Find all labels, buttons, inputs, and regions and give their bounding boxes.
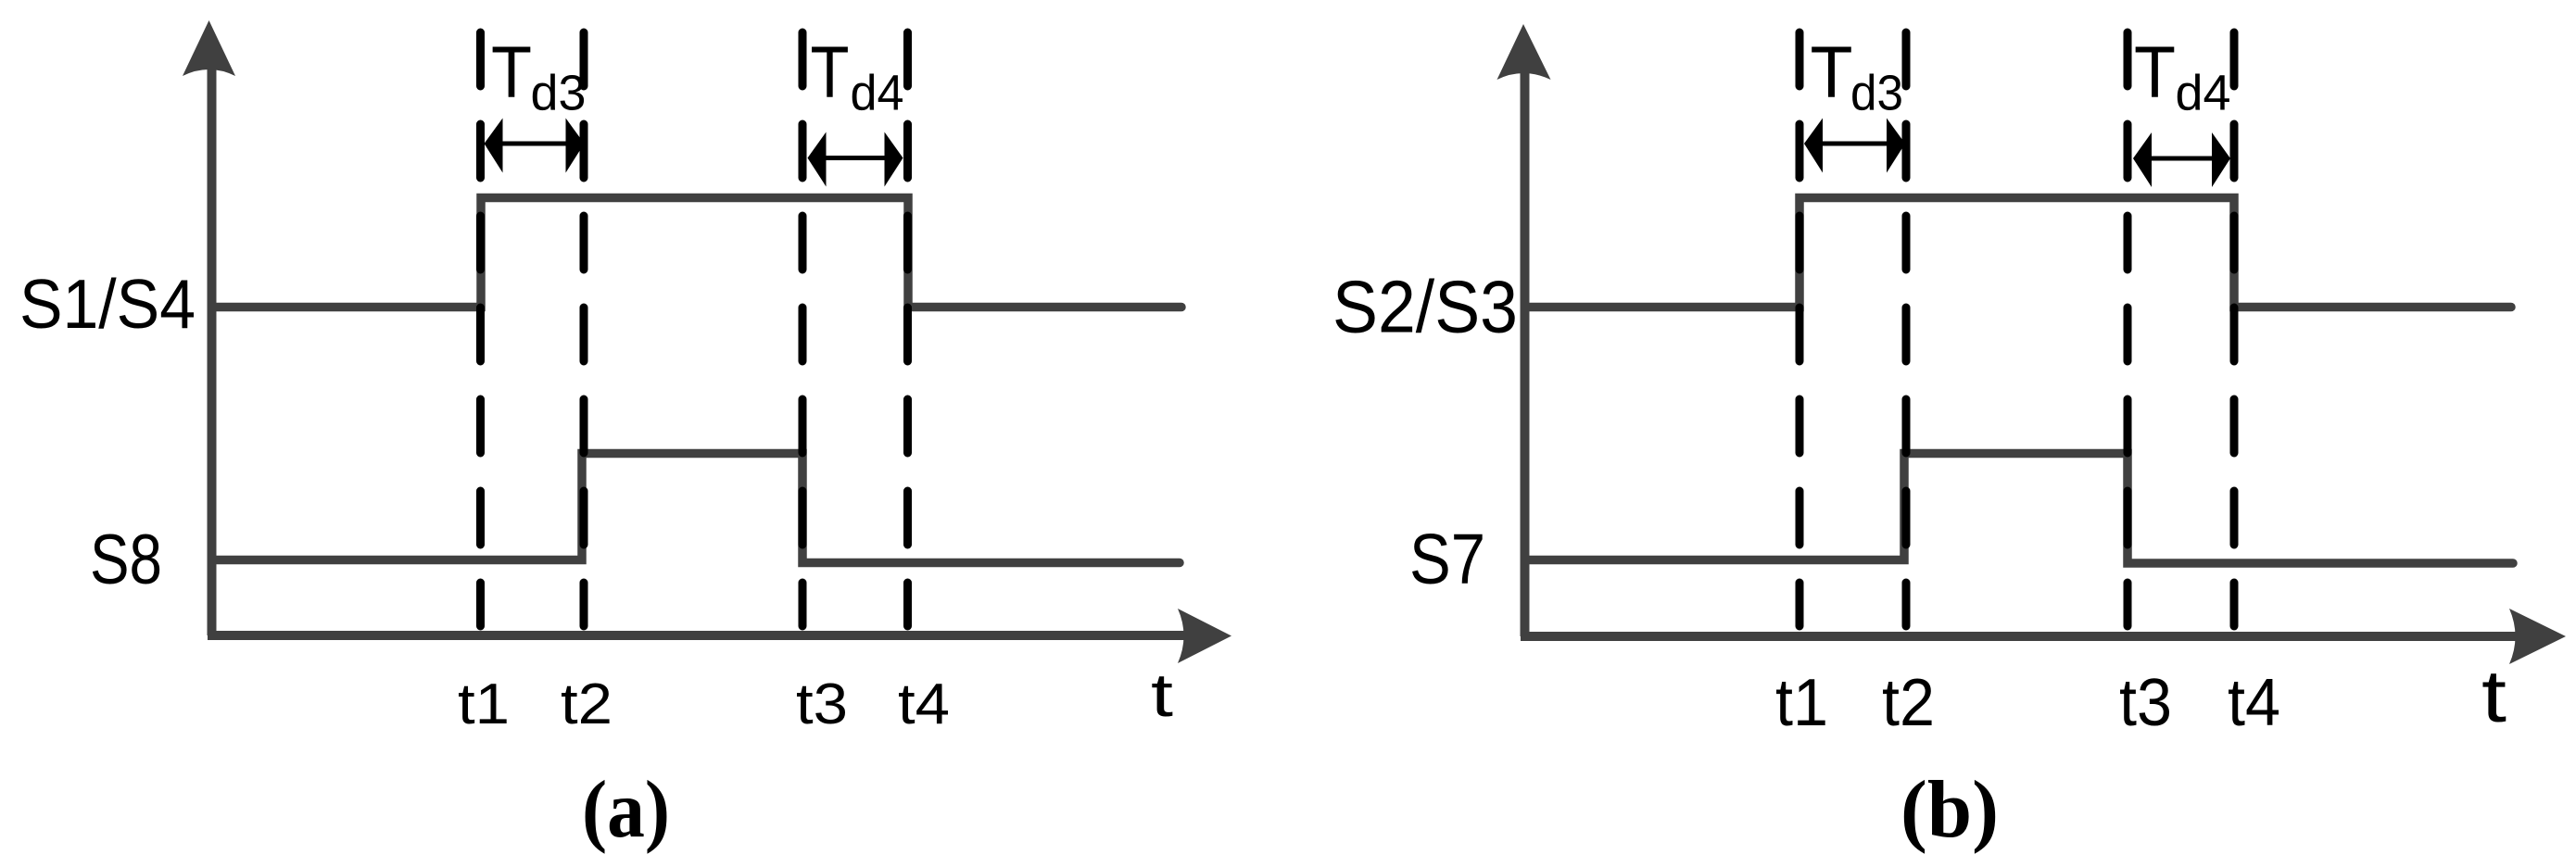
dashed line t4 (panel b) [2230,32,2239,626]
waveform S1/S4 (panel a) [216,198,1181,308]
dashed line t2 (panel a) [580,32,588,626]
dashed line t2 (panel b) [1902,32,1911,626]
svg-text:t: t [2481,655,2507,737]
svg-text:S1/S4: S1/S4 [19,265,196,343]
svg-text:t4: t4 [2228,666,2280,740]
svg-text:t: t [1151,660,1173,729]
svg-text:T: T [491,31,532,113]
svg-text:d4: d4 [2176,66,2231,121]
svg-text:T: T [1811,31,1853,113]
y-axis arrowhead (panel a) [183,20,235,76]
svg-text:d3: d3 [1850,66,1903,121]
svg-text:t1: t1 [1775,666,1828,740]
Td3 dimension arrow (panel b) [1804,119,1905,173]
dashed line t3 (panel b) [2124,32,2132,626]
svg-text:(b): (b) [1900,765,1999,855]
svg-text:T: T [811,31,850,113]
y-axis (panel b) [1521,44,1530,636]
x-axis (panel a) [208,631,1205,640]
dashed line t4 (panel a) [903,32,912,626]
svg-text:t3: t3 [796,672,848,736]
svg-text:d3: d3 [531,66,587,121]
y-axis arrowhead (panel b) [1497,24,1551,80]
svg-text:t2: t2 [561,672,612,736]
svg-text:S7: S7 [1409,520,1485,599]
svg-text:d4: d4 [851,66,904,121]
x-axis arrowhead (panel b) [2509,609,2566,664]
svg-text:t1: t1 [458,672,510,736]
Td4 dimension arrow (panel b) [2133,132,2230,187]
waveform S2/S3 (panel b) [1529,198,2511,308]
svg-text:(a): (a) [582,765,670,855]
svg-text:T: T [2134,31,2176,113]
dashed line t1 (panel b) [1796,32,1804,626]
x-axis arrowhead (panel a) [1178,609,1231,663]
Td3 dimension arrow (panel a) [485,119,585,173]
svg-text:t2: t2 [1882,666,1935,740]
svg-text:t4: t4 [898,672,950,736]
waveform S7 (panel b) [1529,454,2513,564]
waveform S8 (panel a) [216,454,1180,563]
Td4 dimension arrow (panel a) [808,132,903,187]
dashed line t1 (panel a) [476,32,485,626]
svg-text:S8: S8 [90,521,162,599]
dashed line t3 (panel a) [799,32,807,626]
x-axis (panel b) [1521,632,2537,641]
svg-text:t3: t3 [2119,666,2172,740]
svg-text:S2/S3: S2/S3 [1332,266,1518,348]
y-axis (panel a) [208,42,217,635]
